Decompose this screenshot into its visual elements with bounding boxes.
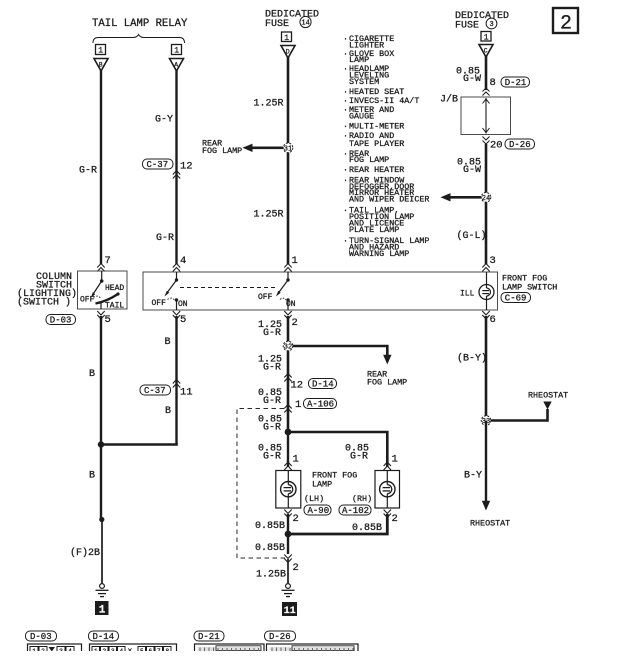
pin 12 and connector D-14 (291, 379, 337, 392)
ground symbol left (96, 584, 109, 597)
svg-text:FUSE: FUSE (455, 21, 479, 32)
svg-text:(F)2B: (F)2B (70, 547, 100, 559)
svg-text:32: 32 (284, 344, 292, 352)
svg-text:1: 1 (295, 399, 301, 411)
ground symbol middle (282, 584, 295, 597)
svg-text:12: 12 (291, 380, 304, 392)
svg-text:D-21: D-21 (198, 632, 220, 642)
svg-text:1: 1 (484, 34, 489, 43)
wire second column from relay A (175, 70, 177, 264)
svg-text:1.25B: 1.25B (256, 570, 286, 581)
chevrons RH pin 2 (384, 510, 391, 518)
J/B box (461, 97, 511, 135)
svg-text:11: 11 (180, 387, 193, 399)
svg-text:2: 2 (293, 513, 299, 525)
svg-text:RHEOSTAT: RHEOSTAT (470, 519, 510, 529)
svg-text:4: 4 (180, 255, 186, 267)
svg-text:LAMP SWITCH: LAMP SWITCH (502, 283, 557, 293)
svg-text:D-03: D-03 (30, 632, 52, 642)
svg-text:31: 31 (284, 145, 292, 153)
page number box 2 (553, 8, 578, 36)
svg-text:OFF: OFF (80, 296, 95, 305)
splice 33 branch to rheostat (490, 402, 552, 421)
svg-text:G-R: G-R (79, 166, 97, 177)
svg-text:(G-L): (G-L) (457, 230, 487, 242)
connector pin grid D-14 (90, 644, 177, 656)
splice 33 (481, 416, 491, 426)
fuse 3 connector triangle C (479, 45, 493, 58)
svg-text:2: 2 (293, 562, 299, 574)
svg-text:×: × (128, 647, 133, 651)
svg-text:A-102: A-102 (342, 506, 369, 516)
svg-text:D-21: D-21 (505, 78, 527, 88)
svg-text:6: 6 (490, 314, 496, 326)
J/B internal wire with arrows (483, 98, 490, 134)
chevrons D-14 crossing (284, 374, 291, 382)
bottom connector label D-26 (265, 631, 296, 642)
junction dot left lower (99, 517, 104, 522)
front fog lamp switch box (143, 272, 498, 310)
connector chevrons at J/B bottom (483, 137, 490, 145)
connector pin grid D-21 (195, 644, 265, 654)
svg-text:D-26: D-26 (269, 632, 291, 642)
svg-text:1.25R: 1.25R (254, 99, 284, 110)
load list bullet items (343, 34, 429, 259)
svg-text:MULTI-METER: MULTI-METER (349, 122, 404, 132)
svg-text:REAR HEATER: REAR HEATER (349, 165, 404, 175)
wire second column below switch (175, 316, 177, 445)
svg-text:G-W: G-W (463, 74, 481, 85)
splice 24 (481, 193, 491, 203)
connector C-37 pin 12 (143, 159, 193, 173)
svg-text:ON: ON (178, 300, 188, 309)
svg-text:C-37: C-37 (147, 160, 169, 170)
svg-text:1: 1 (292, 255, 298, 267)
svg-text:B: B (89, 369, 95, 380)
bottom connector label D-14 (89, 631, 119, 642)
svg-text:OFF: OFF (258, 293, 273, 302)
svg-text:J/B: J/B (440, 94, 458, 106)
ground designator box 11 (282, 602, 297, 617)
wire left ground lead (101, 520, 103, 584)
svg-text:D-26: D-26 (509, 140, 531, 150)
svg-text:·: · (343, 165, 348, 175)
svg-text:0.85B: 0.85B (352, 523, 382, 534)
splice 31 (283, 143, 293, 153)
label 1.25 G-R below splice 32 (258, 355, 282, 374)
connector chevrons at J/B top (483, 88, 490, 96)
label 1.25 G-R above splice 32 (258, 320, 282, 339)
wire LH lamp down to join (287, 514, 289, 534)
label 0.85 G-R RH (345, 444, 369, 463)
svg-text:G-R: G-R (350, 452, 368, 463)
svg-text:(LH): (LH) (304, 494, 324, 504)
chevrons ground crossing (284, 555, 291, 563)
chevrons pin 6 (482, 311, 489, 319)
svg-text:(RH): (RH) (352, 494, 372, 504)
svg-text:G-R: G-R (263, 363, 281, 374)
dedicated fuse 3 title (455, 11, 509, 32)
svg-text:TAIL: TAIL (105, 302, 124, 311)
bottom connector label D-21 (194, 631, 224, 642)
wire left to ground (100, 445, 102, 520)
svg-text:7: 7 (105, 255, 111, 267)
rear fog lamp text upper (202, 139, 242, 157)
svg-text:G-R: G-R (263, 396, 281, 407)
svg-text:14: 14 (301, 20, 309, 28)
connector label D-03 (46, 315, 76, 326)
chevrons pin 4 (173, 264, 180, 272)
front fog lamp switch label (501, 274, 557, 304)
svg-text:0.85B: 0.85B (255, 543, 285, 554)
wire right column from fuse 3 (485, 56, 488, 90)
svg-text:FOG LAMP: FOG LAMP (349, 155, 389, 165)
svg-text:1: 1 (98, 47, 103, 56)
svg-text:PLATE LAMP: PLATE LAMP (349, 225, 399, 235)
chevrons pin 5 left (97, 311, 104, 319)
svg-text:SYSTEM: SYSTEM (349, 77, 379, 87)
svg-text:G-R: G-R (263, 328, 281, 339)
svg-text:AND WIPER DEICER: AND WIPER DEICER (349, 195, 429, 205)
chevrons C-37 pin 11 (173, 380, 180, 388)
svg-text:(B-Y): (B-Y) (457, 353, 487, 365)
svg-text:G-W: G-W (463, 165, 481, 176)
wire middle ground lead (287, 559, 289, 583)
brace under relay title (93, 35, 185, 44)
svg-text:2: 2 (560, 13, 572, 36)
svg-text:GAUGE: GAUGE (349, 111, 374, 121)
svg-text:A: A (174, 62, 178, 69)
svg-text:0.85B: 0.85B (255, 521, 285, 532)
svg-text:8: 8 (490, 77, 496, 89)
svg-text:TAIL LAMP RELAY: TAIL LAMP RELAY (92, 18, 188, 30)
chevrons A-106 crossing (284, 405, 291, 413)
svg-text:G-R: G-R (156, 233, 174, 244)
svg-text:·: · (343, 64, 348, 74)
junction dot ground join (285, 531, 292, 538)
svg-text:(SWITCH ): (SWITCH ) (17, 297, 71, 309)
relay connector triangle B (94, 59, 108, 72)
chevrons pin 1 (284, 264, 291, 272)
front fog lamp label (312, 471, 357, 490)
svg-text:D-14: D-14 (93, 632, 115, 642)
svg-text:·: · (343, 206, 348, 216)
svg-text:FOG LAMP: FOG LAMP (367, 378, 407, 388)
bottom connector label D-03 (26, 631, 57, 642)
svg-text:1.25R: 1.25R (254, 210, 284, 221)
relay connector triangle A (170, 59, 184, 72)
svg-text:1: 1 (99, 605, 106, 617)
ILL lamp (460, 272, 494, 310)
svg-text:FUSE: FUSE (265, 19, 289, 30)
svg-text:12: 12 (180, 161, 193, 173)
label 0.85 G-R LH (258, 444, 282, 463)
svg-text:A-90: A-90 (308, 506, 330, 516)
relay terminal box 1 (right A) (172, 45, 182, 56)
svg-text:·: · (343, 236, 348, 246)
chevrons pin 2 (284, 311, 291, 319)
svg-text:B: B (165, 337, 171, 348)
svg-text:·: · (343, 149, 348, 159)
wire right column below J/B (485, 144, 488, 264)
svg-text:11: 11 (284, 606, 296, 617)
switch 1 contacts (165, 272, 179, 310)
connector pin grid D-03 (28, 644, 82, 655)
svg-text:ILL: ILL (460, 290, 475, 299)
wire right below switch (485, 316, 488, 420)
svg-text:1: 1 (293, 454, 299, 466)
svg-text:C-37: C-37 (144, 386, 166, 396)
wire middle below switch (287, 316, 290, 432)
svg-text:·: · (343, 49, 348, 59)
column switch label (17, 272, 77, 309)
connector label A-90 (304, 505, 331, 516)
wire RH lamp down and join (288, 514, 387, 534)
svg-text:ON: ON (286, 300, 296, 309)
chevrons RH lamp pin 1 (384, 462, 391, 470)
rear fog lamp text lower (367, 370, 407, 388)
wire second column joining left (101, 443, 177, 444)
front fog lamp LH box (276, 471, 301, 509)
svg-text:20: 20 (490, 140, 503, 152)
junction dot left (98, 441, 104, 447)
svg-text:G-R: G-R (263, 452, 281, 463)
svg-text:1: 1 (284, 34, 289, 43)
connector label D-26 (505, 139, 535, 150)
svg-text:C-69: C-69 (505, 294, 527, 304)
connector C-37 pin 11 (140, 385, 193, 399)
column switch position labels (80, 284, 124, 311)
chevrons pin 5 mid (173, 311, 180, 319)
connector pin grid D-26 (267, 644, 359, 654)
svg-text:1: 1 (174, 47, 179, 56)
branch wire to RH lamp (288, 432, 387, 467)
svg-text:2: 2 (292, 317, 298, 329)
svg-text:HEAD: HEAD (105, 284, 124, 293)
svg-text:3: 3 (490, 255, 496, 267)
ground designator box 1 (95, 601, 109, 617)
svg-text:·: · (343, 34, 348, 44)
svg-text:RHEOSTAT: RHEOSTAT (528, 391, 568, 401)
wire middle column from fuse 14 (287, 57, 290, 264)
svg-text:G-R: G-R (263, 423, 281, 434)
splice 32 branch to rear fog lamp (292, 346, 392, 365)
relay terminal box 1 (left B) (96, 45, 106, 56)
svg-text:1: 1 (392, 454, 398, 466)
svg-text:C: C (484, 47, 488, 54)
svg-text:WARNING LAMP: WARNING LAMP (349, 249, 409, 259)
wire join to chevron (287, 534, 289, 554)
switch 2 contacts (276, 272, 290, 310)
chevrons pin 3 (482, 264, 489, 272)
dedicated fuse 14 title (265, 10, 319, 31)
switch 1 labels (152, 299, 188, 309)
svg-text:TAPE PLAYER: TAPE PLAYER (349, 139, 404, 149)
svg-text:G-Y: G-Y (155, 115, 173, 126)
svg-text:2: 2 (392, 513, 398, 525)
svg-text:B: B (165, 406, 171, 417)
svg-text:5: 5 (105, 314, 111, 326)
label 0.85 G-W lower (457, 158, 481, 177)
connector label A-102 (339, 505, 371, 516)
mechanical link dashed (180, 287, 277, 289)
svg-text:5: 5 (180, 314, 186, 326)
chevrons LH pin 2 (284, 510, 291, 518)
svg-text:FOG LAMP: FOG LAMP (202, 146, 242, 156)
svg-text:·: · (343, 105, 348, 115)
splice 31 arrow to rear fog lamp (243, 144, 285, 152)
svg-text:3: 3 (490, 21, 494, 29)
pin 1 and connector A-106 (295, 399, 337, 412)
svg-text:D: D (286, 48, 290, 55)
svg-text:·: · (343, 131, 348, 141)
chevrons C-37 crossing (173, 171, 180, 179)
label 0.85 G-R first (258, 388, 282, 407)
junction dot lamp branch (285, 429, 292, 436)
connector label D-21 (501, 77, 530, 88)
fuse 14 connector triangle D (281, 46, 295, 59)
switch 2 labels (258, 293, 296, 309)
front fog lamp RH box (375, 471, 400, 509)
svg-text:D-14: D-14 (312, 380, 334, 390)
chevrons LH lamp pin 1 (284, 462, 291, 470)
svg-text:A-106: A-106 (307, 400, 334, 410)
chevrons pin 7 (97, 264, 104, 272)
svg-text:OFF: OFF (152, 299, 167, 308)
svg-text:B: B (99, 62, 103, 69)
splice 24 arrow to list (441, 193, 482, 201)
wire right to rheostat arrow (482, 421, 490, 511)
LH RH labels (304, 494, 372, 504)
column switch box (78, 271, 128, 309)
wire to LH lamp (287, 432, 289, 467)
label 0.85 G-R second (258, 415, 282, 434)
svg-text:B-Y: B-Y (464, 471, 482, 482)
fuse 3 terminal box 1 (481, 32, 491, 43)
dashed harness boundary (237, 409, 285, 559)
svg-text:B: B (89, 471, 95, 482)
svg-text:24: 24 (482, 195, 490, 203)
wire left column below switch (100, 316, 102, 446)
label 0.85 G-W upper (456, 67, 481, 86)
wire left column from relay B (100, 70, 102, 264)
svg-text:LAMP: LAMP (312, 480, 332, 490)
svg-text:·: · (343, 122, 348, 132)
column switch contacts (91, 271, 120, 309)
fuse 14 terminal box 1 (282, 32, 292, 43)
svg-text:·: · (343, 175, 348, 185)
svg-text:D-03: D-03 (50, 316, 72, 326)
splice 32 (283, 341, 293, 351)
